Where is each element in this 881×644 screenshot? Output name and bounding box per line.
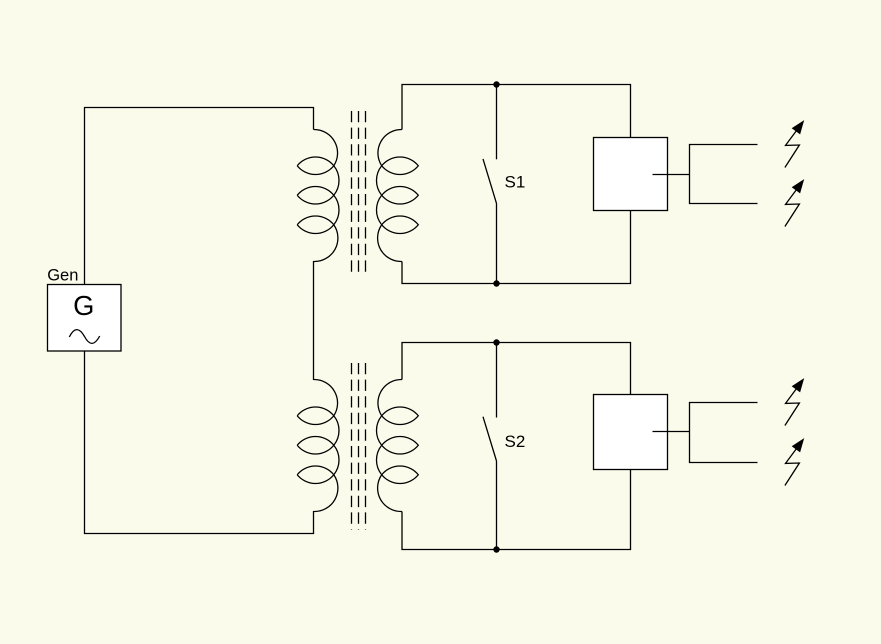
wire T2 secondary top loop	[402, 343, 631, 395]
junction node dot loop1 top	[493, 81, 499, 87]
switch S2 lower lead	[496, 461, 498, 550]
antenna bolt 3	[785, 378, 804, 425]
transformer T2 core	[352, 363, 366, 530]
transformer T1 primary winding	[297, 129, 339, 261]
antenna bolt 4	[785, 438, 804, 485]
svg-text:Gen: Gen	[47, 266, 78, 284]
wire generator top to primary winding T1	[85, 108, 314, 285]
load box 1	[594, 138, 668, 211]
antenna bolt 1	[785, 120, 804, 167]
wire feed box2 to antenna fork	[653, 431, 690, 433]
switch S2 blade	[483, 417, 497, 461]
svg-text:G: G	[73, 290, 94, 321]
transformer T1 core	[352, 111, 366, 277]
transformer T2 secondary winding	[376, 379, 418, 511]
antenna bolt 2	[785, 179, 804, 226]
junction node dot loop1 bottom	[493, 280, 499, 286]
wire feed box1 to antenna fork	[653, 174, 690, 176]
transformer T2 primary winding	[297, 379, 339, 511]
junction node dot loop2 top	[493, 339, 499, 345]
wire T2 secondary bottom loop	[402, 470, 631, 550]
transformer T1 secondary winding	[376, 129, 418, 261]
wire series link T1 primary to T2 primary	[313, 261, 315, 380]
antenna feed fork 1	[690, 145, 758, 204]
generator sine symbol	[69, 330, 99, 344]
switch S2 upper lead	[496, 343, 498, 418]
switch S1 blade	[483, 159, 497, 204]
wire T1 secondary top loop	[402, 85, 631, 138]
wire T1 secondary bottom loop	[402, 211, 631, 284]
wire T2 primary bottom to generator bottom	[85, 351, 314, 534]
junction node dot loop2 bottom	[493, 546, 499, 552]
load box 2	[594, 395, 668, 470]
svg-text:S1: S1	[505, 173, 526, 192]
antenna feed fork 2	[690, 403, 758, 463]
generator G box	[48, 285, 122, 352]
svg-text:S2: S2	[505, 432, 526, 451]
switch S1 upper lead	[496, 85, 498, 160]
switch S1 lower lead	[496, 203, 498, 283]
